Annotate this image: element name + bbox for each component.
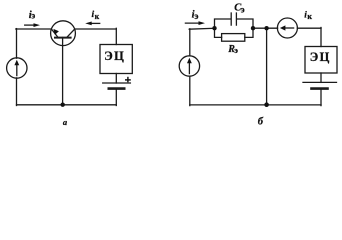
- wire bottom rail (circuit b): [190, 104, 321, 106]
- wire box-to-battery (circuit a): [115, 74, 117, 84]
- wire RC right node to dependent source (circuit b): [253, 27, 278, 29]
- label plus of battery (circuit a): [125, 77, 131, 83]
- box ЭЦ (electronic circuit, circuit a): [100, 45, 132, 74]
- wire middle branch vertical (circuit b): [266, 28, 268, 105]
- svg-text:э: э: [194, 12, 198, 22]
- box ЭЦ (electronic circuit, circuit b): [305, 47, 337, 74]
- svg-text:э: э: [31, 11, 35, 21]
- wire top rail to RC node (circuit b): [189, 27, 214, 30]
- wire left vertical (circuit a, source to top rail): [16, 29, 18, 59]
- svg-text:ЭЦ: ЭЦ: [310, 50, 331, 64]
- current source (circuit b): [179, 56, 199, 76]
- wire bottom rail (circuit a): [17, 104, 117, 106]
- wire top rail left segment (circuit a): [16, 28, 52, 30]
- battery E (circuit b): [303, 82, 337, 88]
- wire dependent source to right corner (circuit b): [297, 27, 321, 29]
- svg-text:ЭЦ: ЭЦ: [104, 49, 125, 63]
- resistor R_e branch (circuit b): [215, 28, 254, 41]
- junction dot top of middle branch (circuit b): [264, 26, 268, 30]
- wire battery-to-bottom (circuit b): [320, 89, 322, 106]
- current source (circuit a): [7, 58, 27, 78]
- wire battery-to-bottom (circuit a): [115, 89, 117, 106]
- svg-text:э: э: [234, 45, 238, 55]
- arrow of emitter current i_e (circuit b): [185, 21, 205, 25]
- wire left vertical bottom (circuit a): [16, 78, 18, 106]
- arrow of collector current i_k (circuit a): [85, 22, 100, 26]
- wire top rail right segment (circuit a): [75, 28, 117, 30]
- capacitor C_e branch (circuit b): [215, 13, 254, 28]
- wire left vertical top (circuit b): [189, 29, 191, 56]
- transistor VT (circuit a, common-base): [51, 21, 76, 46]
- node dot right of RC (circuit b): [251, 26, 255, 30]
- wire right branch down to box (circuit b): [320, 28, 322, 47]
- dependent current source i_k (circuit b): [277, 18, 297, 38]
- node dot left of RC (circuit b): [212, 26, 216, 30]
- wire left vertical bottom (circuit b): [189, 76, 191, 105]
- junction dot (base-emitter bottom node, circuit a): [61, 103, 65, 107]
- svg-text:к: к: [95, 12, 100, 21]
- svg-text:к: к: [307, 12, 312, 21]
- battery E (circuit a): [103, 83, 131, 89]
- wire right branch top (circuit a): [115, 28, 117, 44]
- arrow of emitter current i_e (circuit a): [25, 23, 40, 27]
- wire base lead of transistor down to bottom rail: [62, 38, 64, 105]
- svg-text:а: а: [63, 117, 68, 127]
- svg-text:б: б: [258, 117, 264, 128]
- wire box-to-battery (circuit b): [320, 73, 322, 82]
- svg-text:э: э: [241, 4, 245, 14]
- junction dot bottom of middle branch (circuit b): [264, 102, 269, 107]
